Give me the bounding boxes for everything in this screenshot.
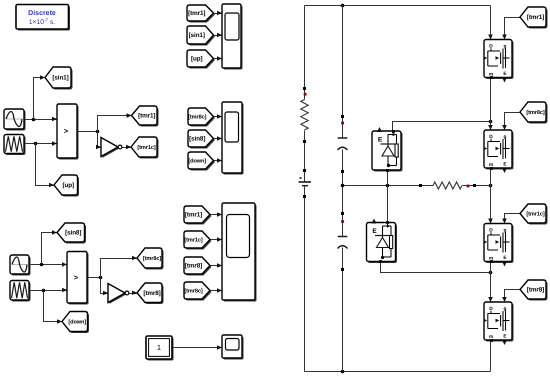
from tag [tmr1c] to scope3	[184, 231, 212, 250]
svg-text:[up]: [up]	[63, 182, 75, 189]
goto tag [tmr8c]	[132, 248, 164, 270]
svg-text:[tmr8c]: [tmr8c]	[188, 114, 206, 121]
arrowhead scope3 port 1	[217, 212, 222, 217]
svg-text:E: E	[372, 228, 377, 235]
svg-text:1×10-7 s.: 1×10-7 s.	[29, 18, 56, 27]
scope block 2	[222, 102, 244, 175]
port square C1 top	[341, 115, 344, 118]
wire comparator1 output	[78, 131, 98, 133]
wire to not-gate U2	[101, 278, 109, 294]
wire branch to goto [down]	[44, 291, 63, 322]
wire Q3 source to Q4 drain	[490, 262, 492, 303]
svg-text:Discrete: Discrete	[28, 9, 56, 17]
from tag [tmr1] to scope3	[184, 206, 212, 225]
wire sine2 to comparator2	[30, 264, 68, 266]
arrowhead gate Q3	[502, 219, 507, 224]
measurement dot C1	[341, 122, 344, 125]
wire junction bottom rail mid bus	[341, 370, 345, 374]
wire sine1 to comparator1	[25, 119, 58, 121]
svg-text:[sin8]: [sin8]	[65, 230, 81, 237]
arrowhead scope3 port 4	[217, 288, 222, 293]
port square R2 left	[419, 184, 422, 187]
scope block 1	[222, 4, 243, 70]
arrowhead scope2 port 2	[217, 136, 222, 141]
arrowhead scope1 port 3	[217, 56, 222, 61]
port square C1 bottom	[341, 170, 344, 173]
wire top rail	[305, 5, 491, 7]
resistor R2 load branch	[433, 182, 462, 189]
source sine wave 1	[4, 109, 26, 131]
svg-text:[tmr1c]: [tmr1c]	[526, 211, 544, 218]
wire junction mid rail at mid bus	[341, 184, 345, 188]
wire from tag to scope1 port 3	[214, 58, 223, 60]
wire Q2 source to Q3 drain	[490, 169, 492, 224]
from tag [tmr1] to scope1	[187, 5, 215, 23]
mosfet block Q2	[484, 130, 514, 173]
diode block D1	[372, 127, 403, 172]
from tag [tmr1c] to Q3 gate	[520, 204, 548, 225]
wire diode D2 top leg	[387, 186, 389, 223]
arrowhead scope1 port 1	[217, 11, 222, 16]
svg-text:[tmr8]: [tmr8]	[185, 263, 202, 270]
wire diode D1 top to upper rail	[393, 122, 491, 132]
wire from tag to scope2 port 1	[214, 116, 223, 118]
svg-text:[sin1]: [sin1]	[189, 32, 205, 39]
from tag [tmr8c] to scope2	[188, 108, 215, 127]
wire gate Q4 from [tmr8]	[505, 290, 521, 301]
comparator block 2	[67, 252, 89, 305]
from tag [tmr1] to Q1 gate	[520, 7, 548, 29]
port square battery top	[303, 169, 306, 172]
arrowhead into comparator2 input1	[62, 262, 67, 267]
arrowhead gate Q1	[502, 35, 507, 40]
port square R1 top	[303, 87, 306, 90]
wire junction mid rail at diode leg	[386, 184, 390, 188]
arrowhead scope1 port 2	[217, 33, 222, 38]
from tag [down] to scope2	[188, 152, 215, 171]
constant block 1	[146, 336, 174, 361]
wire triangle2 to comparator2	[30, 290, 68, 292]
goto tag [down]	[57, 312, 89, 334]
capacitor C2	[338, 237, 348, 249]
wire left bus upper	[304, 6, 306, 100]
from tag [sin1] to scope1	[187, 26, 215, 46]
svg-text:[tmr1c]: [tmr1c]	[184, 237, 202, 244]
svg-text:[tmr8c]: [tmr8c]	[143, 255, 161, 262]
port square R1 bottom	[303, 140, 306, 143]
svg-text:[tmr8]: [tmr8]	[143, 290, 160, 297]
wire from tag to scope3 port 3	[211, 265, 223, 267]
arrowhead scope3 port 2	[217, 237, 222, 242]
arrowhead drain Q4	[488, 297, 493, 302]
wire mid bus middle	[342, 150, 344, 237]
arrowhead into not-gate U2	[103, 291, 108, 296]
wire junction upper diode rail at right bus	[489, 120, 493, 124]
wire gate Q1 from [tmr1]	[505, 18, 521, 39]
wire junction comparator1 output	[96, 130, 100, 134]
wire diode D2 bottom to lower rail	[381, 262, 491, 273]
wire from tag to scope3 port 1	[211, 214, 223, 216]
wire to goto [tmr1]	[98, 116, 132, 132]
goto tag [tmr8]	[132, 283, 164, 304]
wire junction top rail mid bus	[341, 4, 345, 8]
port square battery bottom	[303, 195, 306, 198]
svg-text:[tmr1]: [tmr1]	[527, 14, 544, 21]
svg-text:[tmr1]: [tmr1]	[185, 212, 202, 219]
diode block D2	[367, 219, 398, 264]
svg-text:[down]: [down]	[68, 319, 86, 326]
wire junction triangle2 branch	[42, 289, 46, 293]
arrowhead drain Q3	[488, 219, 493, 224]
arrowhead into comparator2 input2	[62, 288, 67, 293]
from tag [tmr8] to scope3	[184, 257, 212, 276]
measurement dot C2	[341, 220, 344, 223]
wire gate Q2 from [tmr8c]	[505, 113, 521, 129]
goto tag [sin8]	[52, 223, 86, 244]
arrowhead into comparator1 input2	[52, 141, 57, 146]
display scope block	[222, 335, 244, 360]
svg-text:1: 1	[157, 343, 161, 352]
from tag [sin8] to scope2	[188, 130, 215, 149]
mosfet block Q4	[484, 302, 514, 345]
mosfet block Q1	[484, 40, 514, 83]
annotation Discrete sample time box	[16, 5, 70, 31]
not-gate U2	[108, 284, 129, 304]
wire mid bus lower	[342, 248, 344, 372]
svg-text:E: E	[378, 137, 383, 144]
svg-text:[tmr8c]: [tmr8c]	[526, 109, 544, 116]
wire from tag to scope1 port 1	[214, 13, 223, 15]
arrowhead drain Q2	[488, 125, 493, 130]
svg-text:[tmr8]: [tmr8]	[527, 287, 544, 294]
svg-text:[tmr1c]: [tmr1c]	[137, 144, 155, 151]
mosfet block Q3	[484, 224, 514, 267]
from tag [up] to scope1	[187, 50, 215, 69]
wire from tag to scope3 port 2	[211, 239, 223, 241]
arrowhead into display	[217, 345, 222, 350]
arrowhead into not-gate U1	[96, 145, 101, 150]
wire comparator2 output	[88, 277, 101, 279]
from tag [tmr8c] to scope3	[184, 282, 212, 301]
wire from tag to scope3 port 4	[211, 290, 223, 292]
arrowhead drain Q1	[488, 35, 493, 40]
wire left bus lower	[304, 187, 306, 372]
wire Q4 source to bottom rail	[490, 341, 492, 372]
arrowhead scope2 port 1	[217, 114, 222, 119]
comparator block 1	[57, 104, 79, 160]
wire not-gate U2 to goto [tmr8]	[130, 293, 138, 295]
wire junction mid rail at right bus	[489, 184, 493, 188]
port square C2 top	[341, 212, 344, 215]
wire right bus to Q1 drain	[490, 6, 492, 40]
not-gate U1	[101, 138, 122, 158]
goto tag [tmr1]	[127, 106, 159, 127]
wire mid bus upper	[342, 6, 344, 139]
svg-text:[tmr8c]: [tmr8c]	[184, 288, 202, 295]
svg-text:[sin8]: [sin8]	[189, 136, 205, 143]
svg-text:[tmr1]: [tmr1]	[138, 113, 155, 120]
svg-text:[tmr1]: [tmr1]	[188, 10, 205, 17]
svg-text:[down]: [down]	[188, 158, 206, 165]
from tag [tmr8c] to Q2 gate	[520, 102, 548, 124]
arrowhead gate Q4	[502, 297, 507, 302]
measurement dot R1 top	[304, 93, 307, 96]
wire junction sine2 branch	[40, 263, 44, 267]
from tag [tmr8] to Q4 gate	[520, 280, 548, 301]
wire not-gate U1 to goto [tmr1c]	[123, 147, 132, 149]
wire branch to goto [sin1]	[34, 78, 46, 120]
wire gate Q3 from [tmr1c]	[505, 214, 521, 223]
goto tag [tmr1c]	[126, 137, 159, 159]
svg-text:m: m	[489, 163, 493, 168]
wire junction comparator2 output	[99, 276, 103, 280]
goto tag [sin1]	[40, 67, 73, 90]
svg-text:m: m	[489, 335, 493, 340]
wire from tag to scope1 port 2	[214, 35, 223, 37]
wire mid rail left of R2	[343, 185, 434, 187]
scope block 3	[222, 203, 257, 302]
port square R2 right	[473, 184, 476, 187]
source sine wave 2	[10, 255, 31, 276]
port square C2 bottom	[341, 268, 344, 271]
source triangle wave 1	[4, 135, 26, 156]
arrowhead scope3 port 3	[217, 263, 222, 268]
svg-text:>: >	[64, 127, 69, 136]
wire from tag to scope2 port 2	[214, 138, 223, 140]
wire triangle1 to comparator1	[25, 143, 58, 145]
measurement dot R2	[467, 185, 470, 188]
source triangle wave 2	[10, 281, 31, 302]
wire diode D1 bottom leg	[387, 171, 389, 186]
capacitor C1	[338, 138, 348, 150]
arrowhead scope2 port 3	[217, 158, 222, 163]
wire bottom rail	[305, 371, 491, 373]
wire branch to goto [up]	[36, 144, 55, 186]
svg-text:>: >	[74, 273, 79, 282]
wire from tag to scope2 port 3	[214, 160, 223, 162]
svg-text:[sin1]: [sin1]	[52, 75, 68, 82]
wire junction triangle1 branch	[34, 142, 38, 146]
wire junction sine1 branch	[32, 118, 36, 122]
battery DC source V1	[299, 177, 312, 186]
goto tag [up]	[49, 175, 79, 197]
wire left bus between R1 and battery	[304, 131, 306, 182]
arrowhead into comparator1 input1	[52, 117, 57, 122]
wire to goto [tmr8c]	[101, 259, 138, 278]
svg-text:[up]: [up]	[191, 56, 203, 63]
resistor R1 series branch	[301, 100, 308, 131]
arrowhead gate Q2	[502, 125, 507, 130]
wire junction lower diode rail at right bus	[489, 271, 493, 275]
wire constant to display	[173, 347, 223, 349]
wire mid rail right of R2	[463, 185, 491, 187]
wire to not-gate U1	[98, 132, 102, 148]
wire branch to goto [sin8]	[42, 233, 58, 265]
wire Q1 source to Q2 drain	[490, 78, 492, 131]
